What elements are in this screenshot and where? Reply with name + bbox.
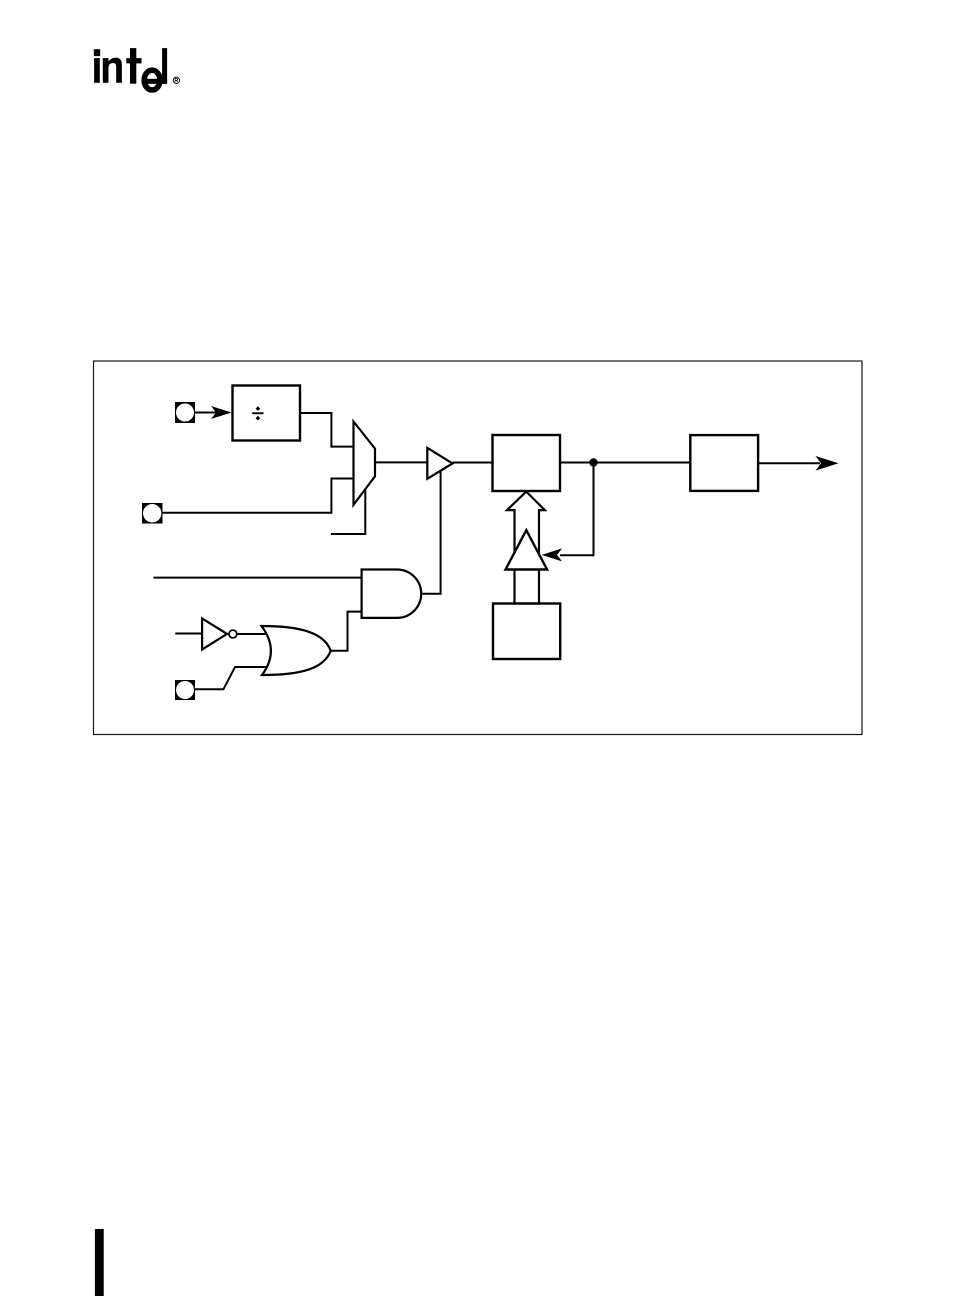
wire inverter input (dangling) — [175, 633, 202, 635]
wire P3 to OR — [195, 667, 272, 689]
intel logo — [94, 48, 167, 90]
wire inverter to OR — [237, 633, 272, 635]
AND gate G1 — [362, 570, 422, 618]
output arrowhead — [816, 456, 839, 471]
feedback arrowhead — [542, 548, 562, 561]
box A — [493, 435, 561, 491]
mux M1 — [354, 422, 376, 505]
feedback wire from junction — [560, 463, 594, 556]
divider box — [233, 386, 301, 441]
mux select stub wire — [331, 490, 365, 534]
figure border frame — [94, 361, 863, 735]
pin P1 — [175, 402, 195, 423]
registered trademark — [173, 77, 179, 83]
wire AND output to buffer enable — [422, 470, 440, 593]
inverter bubble — [229, 630, 237, 638]
wire divider to mux input A — [300, 413, 354, 447]
bottom box — [493, 604, 560, 660]
white triangle overlay — [506, 530, 548, 569]
OR gate G2 — [262, 626, 331, 675]
wire P1 to divider — [195, 412, 216, 414]
wire OR output to AND bottom input — [331, 612, 362, 651]
tri-state buffer U1 — [427, 448, 452, 479]
box B — [690, 435, 758, 491]
page edge bar — [95, 1229, 104, 1296]
pin P2 — [142, 503, 163, 524]
divide symbol — [252, 406, 263, 420]
junction node — [589, 458, 597, 466]
arrowhead into divider — [211, 406, 232, 419]
wire AND top input (dangling) — [153, 577, 361, 579]
wire box A to box B — [560, 462, 690, 464]
pin P3 — [175, 680, 195, 700]
wire P2 to mux input B — [163, 479, 354, 513]
wire buffer to box A — [453, 462, 493, 464]
wire mux to buffer — [375, 461, 427, 463]
output wire — [758, 462, 820, 464]
block arrow into box A — [507, 492, 545, 604]
inverter U2 — [202, 618, 227, 649]
